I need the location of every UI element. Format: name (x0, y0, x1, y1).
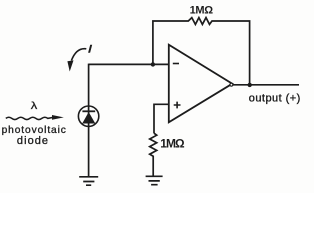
svg-text:diode: diode (17, 135, 49, 147)
svg-text:I: I (88, 42, 93, 55)
svg-text:output (+): output (+) (249, 92, 301, 104)
svg-text:λ: λ (31, 101, 38, 111)
svg-text:1MΩ: 1MΩ (190, 4, 214, 16)
svg-text:1MΩ: 1MΩ (160, 137, 185, 151)
